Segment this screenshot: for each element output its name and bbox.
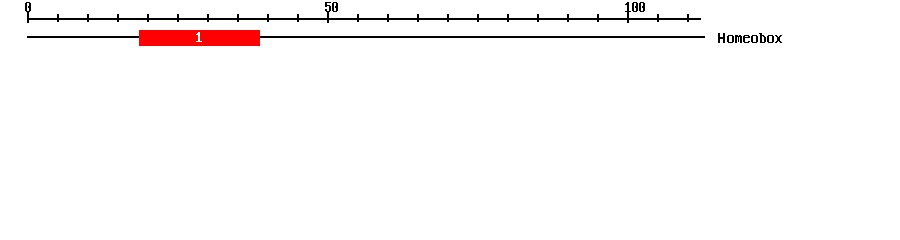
sequence line <box>27 36 705 38</box>
ruler minor tick x=297 <box>297 14 299 22</box>
ruler minor tick x=447 <box>447 14 449 22</box>
ruler minor tick x=357 <box>357 14 359 22</box>
ruler minor tick x=57 <box>57 14 59 22</box>
ruler minor tick x=207 <box>207 14 209 22</box>
background <box>0 0 900 58</box>
ruler minor tick x=597 <box>597 14 599 22</box>
ruler label 50 <box>325 2 338 12</box>
ruler minor tick x=387 <box>387 14 389 22</box>
ruler label 100 <box>625 2 645 12</box>
ruler minor tick x=687 <box>687 14 689 22</box>
ruler major tick 100 <box>627 11 629 23</box>
ruler minor tick x=537 <box>537 14 539 22</box>
ruler minor tick x=507 <box>507 14 509 22</box>
domain name label Homeobox <box>718 33 782 43</box>
ruler axis line <box>27 18 701 20</box>
ruler minor tick x=147 <box>147 14 149 22</box>
domain box label 1 <box>196 32 202 42</box>
ruler minor tick x=177 <box>177 14 179 22</box>
ruler minor tick x=477 <box>477 14 479 22</box>
ruler minor tick x=417 <box>417 14 419 22</box>
ruler minor tick x=267 <box>267 14 269 22</box>
ruler minor tick x=117 <box>117 14 119 22</box>
ruler minor tick x=567 <box>567 14 569 22</box>
ruler major tick 50 <box>327 11 329 23</box>
ruler label 0 <box>25 2 31 12</box>
domain box match 1 (red) <box>139 30 260 46</box>
ruler major tick 0 <box>27 11 29 23</box>
ruler minor tick x=237 <box>237 14 239 22</box>
ruler minor tick x=87 <box>87 14 89 22</box>
ruler minor tick x=657 <box>657 14 659 22</box>
